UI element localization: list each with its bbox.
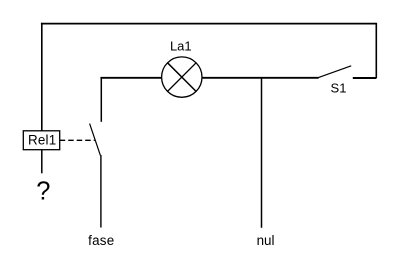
wire right vertical: [375, 23, 377, 78]
wire fase vertical: [100, 155, 102, 228]
wire left vertical: [41, 23, 43, 131]
svg-text:Rel1: Rel1: [28, 132, 56, 147]
wire switch right: [353, 77, 377, 79]
relay Rel1: [23, 131, 59, 150]
svg-text:La1: La1: [170, 39, 192, 54]
wire relay bottom stub: [41, 150, 43, 174]
switch S1 blade: [318, 66, 351, 78]
wire top horizontal: [41, 23, 376, 25]
wire contact upper terminal: [100, 77, 102, 122]
svg-text:S1: S1: [331, 81, 347, 96]
svg-text:?: ?: [36, 178, 50, 206]
relay contact blade: [90, 124, 101, 156]
dashed control link relay to contact: [60, 139, 95, 141]
wire lamp to switch: [202, 77, 318, 79]
wire lamp left horizontal: [100, 77, 161, 79]
svg-text:fase: fase: [88, 233, 114, 248]
lamp La1: [162, 57, 202, 97]
wire nul vertical: [261, 78, 263, 228]
svg-text:nul: nul: [257, 233, 275, 248]
